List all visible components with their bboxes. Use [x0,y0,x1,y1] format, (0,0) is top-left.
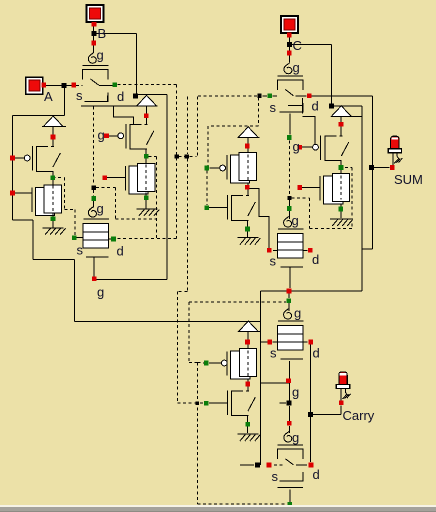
svg-text:d: d [313,346,320,361]
svg-text:C: C [293,38,302,53]
svg-text:g: g [293,139,300,154]
svg-text:s: s [272,469,279,484]
svg-text:g: g [294,306,301,321]
svg-text:Carry: Carry [343,408,375,423]
svg-text:g: g [97,201,104,216]
svg-text:g: g [293,60,300,75]
svg-text:A: A [44,89,53,104]
svg-text:d: d [117,244,124,259]
svg-text:s: s [270,346,277,361]
svg-text:g: g [292,213,299,228]
svg-text:d: d [312,252,319,267]
svg-text:d: d [117,89,124,104]
svg-text:s: s [76,88,83,103]
svg-text:s: s [270,100,277,115]
svg-text:SUM: SUM [394,172,423,187]
svg-text:g: g [97,48,104,63]
svg-text:B: B [98,26,107,41]
svg-text:g: g [292,385,299,400]
svg-text:g: g [292,430,299,445]
svg-text:s: s [270,254,277,269]
svg-text:d: d [312,99,319,114]
svg-text:d: d [313,467,320,482]
svg-text:g: g [97,285,104,300]
svg-text:s: s [77,243,84,258]
svg-text:g: g [98,128,105,143]
